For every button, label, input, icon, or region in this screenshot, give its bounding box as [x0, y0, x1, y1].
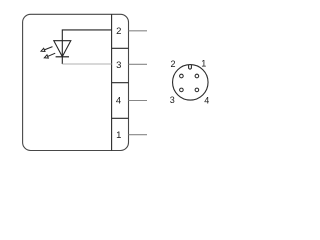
- pin cell divider C: [112, 117, 129, 119]
- light arrow 1: [41, 47, 53, 52]
- svg-text:3: 3: [116, 60, 121, 71]
- pin 4 stub wire: [129, 100, 148, 102]
- sensor body outline: [23, 14, 129, 150]
- svg-text:4: 4: [116, 95, 121, 106]
- pin 3 stub wire: [129, 63, 148, 65]
- wire anode to pin 2: [62, 30, 111, 41]
- connector pin 1 (top-right): [195, 74, 199, 78]
- LED D1 triangle: [54, 41, 71, 57]
- pin cell divider A: [112, 47, 129, 49]
- svg-text:1: 1: [116, 130, 121, 141]
- wire cathode vertical: [61, 41, 63, 64]
- connector keyway notch: [189, 65, 192, 69]
- connector M12 body: [173, 65, 209, 101]
- svg-text:2: 2: [116, 26, 121, 37]
- svg-text:2: 2: [170, 59, 175, 69]
- LED D1 cathode bar: [56, 56, 69, 58]
- connector pin 4 (bottom-right): [195, 88, 199, 92]
- connector pin 3 (bottom-left): [180, 88, 184, 92]
- pin 2 stub wire: [129, 30, 148, 32]
- svg-text:1: 1: [201, 59, 206, 69]
- pin cell divider B: [112, 82, 129, 84]
- svg-text:3: 3: [170, 95, 175, 105]
- svg-text:4: 4: [204, 95, 209, 105]
- connector pin 2 (top-left): [180, 74, 184, 78]
- wire cathode to pin 3: [62, 63, 111, 65]
- pin 1 stub wire: [129, 134, 148, 136]
- light arrow 2: [44, 53, 55, 58]
- pin strip divider: [111, 14, 113, 150]
